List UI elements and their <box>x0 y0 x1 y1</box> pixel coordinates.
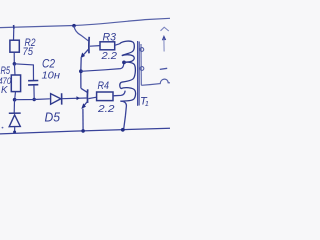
svg-text:75: 75 <box>23 46 34 58</box>
paper background <box>0 0 170 150</box>
node: junction of R2 with top rail <box>13 25 15 29</box>
transformer T1 primary winding <box>120 41 135 56</box>
wire: node A to C2 <box>14 64 33 80</box>
wire: arrow lead right <box>162 35 166 40</box>
wire: R5 top lead <box>13 64 16 75</box>
node: diode to bottom rail <box>13 131 16 134</box>
svg-text:1: 1 <box>145 99 149 108</box>
node A: R2/R5/C2 junction <box>13 62 17 66</box>
svg-text:10н: 10н <box>42 70 61 82</box>
transistor Q1 collector <box>72 24 76 28</box>
svg-text:R4: R4 <box>98 80 110 92</box>
wire: secondary bottom lead with hop <box>141 79 170 85</box>
diode D5 <box>51 94 61 105</box>
wire: R5 bottom lead <box>14 92 17 100</box>
capacitor C2 <box>28 80 38 82</box>
transistor Q1 base lead <box>90 45 100 48</box>
transformer T1 secondary winding <box>140 44 142 85</box>
wire: Q2 emitter to bottom rail <box>82 109 84 131</box>
node: emitter junction <box>79 69 83 73</box>
svg-text:2.2: 2.2 <box>100 50 117 62</box>
wire: node to D5 <box>15 98 50 101</box>
node: T1 bottom on rail <box>121 128 125 132</box>
svg-text:2.2: 2.2 <box>97 103 115 115</box>
wire: caret mark top right <box>161 27 169 31</box>
diode D6 (lower left, unlabeled) <box>13 100 15 113</box>
node: C2 to base wire <box>33 98 36 101</box>
wire: Q1 emitter down <box>80 58 82 89</box>
wire: centre tap of T1 <box>81 63 124 71</box>
resistor R4 <box>97 92 113 101</box>
wire: C2 bottom lead <box>33 85 35 100</box>
transistor Q1 emitter <box>82 49 88 56</box>
wire: T1 primary bottom to rail <box>120 101 126 130</box>
wire: R4 to T1 winding <box>113 91 125 96</box>
node: emitter on rail <box>81 129 85 133</box>
transformer T1 core <box>137 41 139 106</box>
transistor Q2 base lead <box>88 97 96 98</box>
wire: R3 to T1 top <box>115 44 120 46</box>
node: arrow mark on base wire <box>76 96 80 100</box>
node: stray dot left edge <box>2 127 4 129</box>
transistor Q2 base bar <box>86 89 88 103</box>
wire: bottom rail <box>0 128 170 134</box>
transistor Q2 collector <box>81 88 87 92</box>
resistor R5 <box>11 75 20 92</box>
transistor Q1 base bar <box>88 37 90 54</box>
resistor R2 <box>10 40 19 52</box>
wire: R2 bottom lead <box>13 52 15 63</box>
svg-text:K: K <box>1 84 8 96</box>
wire: top supply rail <box>0 18 170 27</box>
resistor R3 <box>100 42 115 50</box>
wire: R2 top lead <box>13 27 15 40</box>
node: T1 centre tap <box>122 61 126 65</box>
wire: dash right <box>160 68 167 69</box>
svg-text:R3: R3 <box>103 31 117 43</box>
svg-text:D5: D5 <box>45 110 61 125</box>
transistor Q2 emitter <box>83 102 87 107</box>
node: R5/diode junction <box>13 98 17 102</box>
wire: D5 to Q2 base <box>62 97 86 100</box>
